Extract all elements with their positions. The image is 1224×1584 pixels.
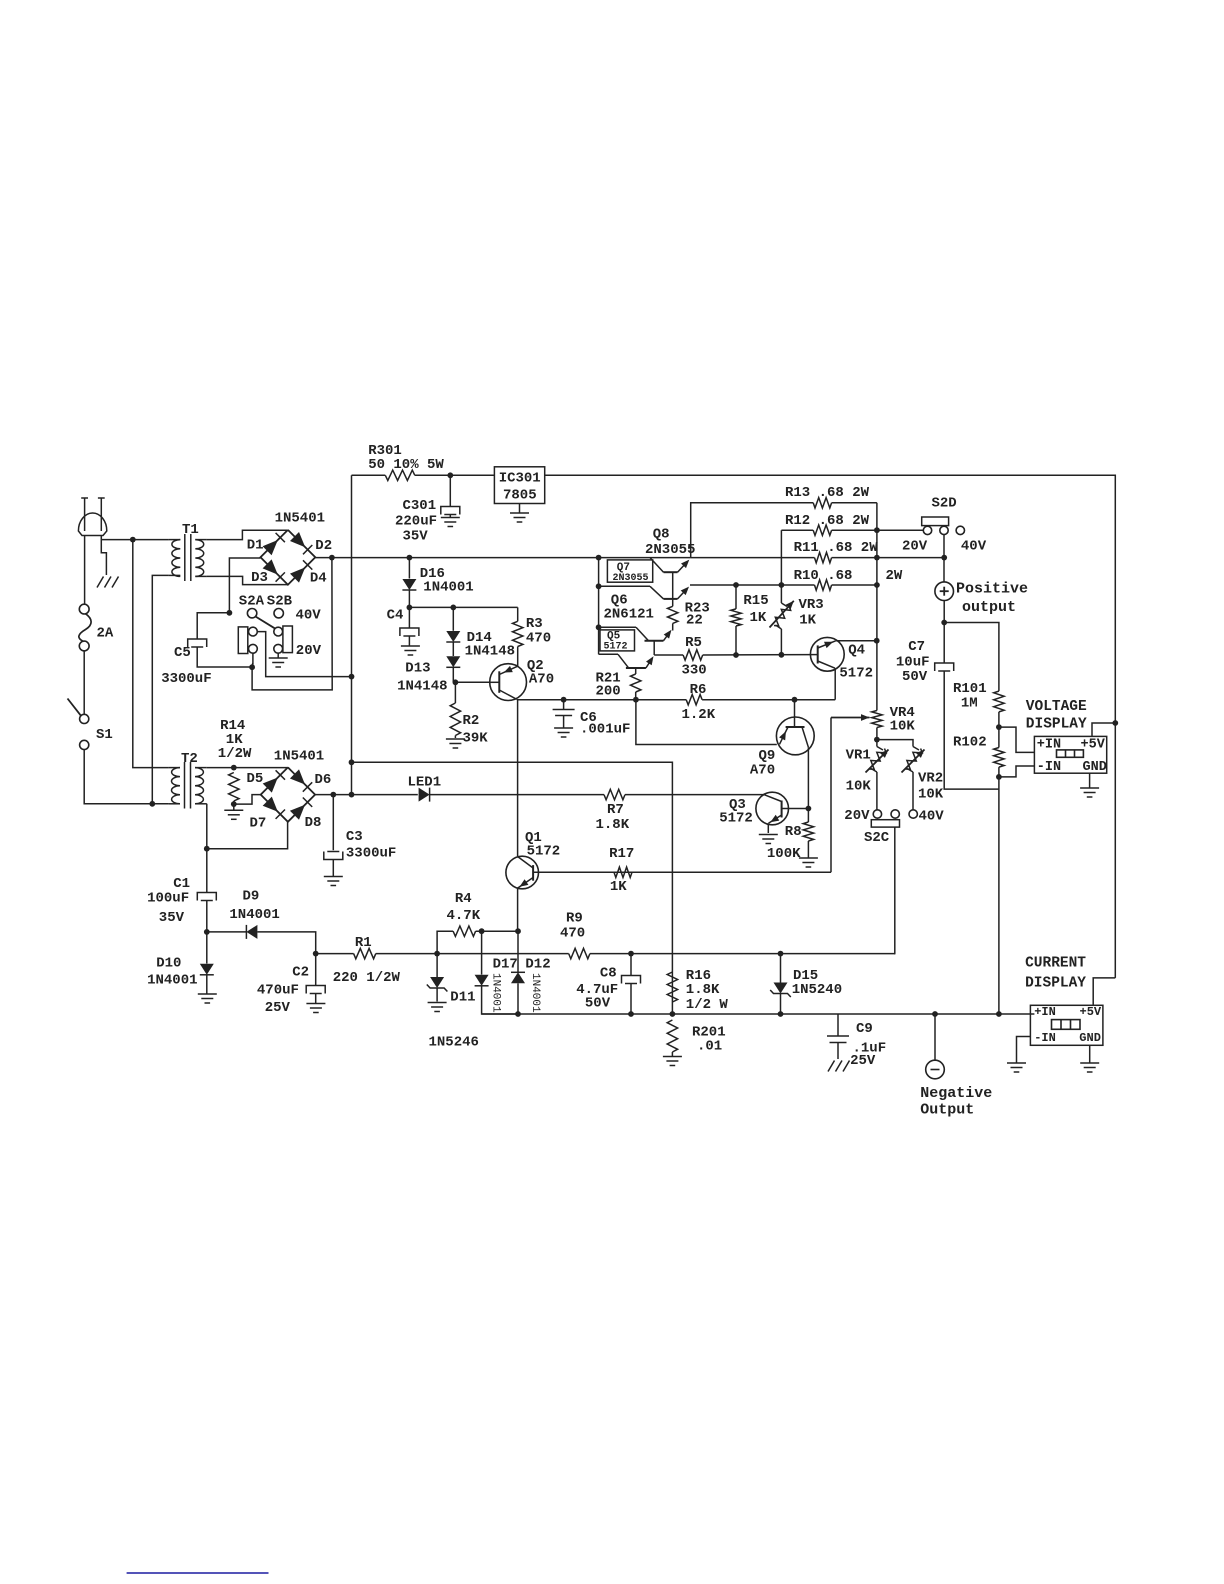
wire: [332, 860, 334, 877]
svg-text:1K: 1K: [799, 613, 816, 629]
svg-text:100uF: 100uF: [147, 891, 189, 907]
wire: [376, 953, 569, 955]
label D6: [315, 772, 332, 788]
svg-text:1.2K: 1.2K: [682, 707, 716, 723]
wire: [832, 584, 877, 586]
svg-text:1N4001: 1N4001: [147, 973, 197, 989]
resistor R4: [447, 891, 481, 936]
resistor R21: [596, 671, 641, 700]
wire: [834, 668, 836, 700]
diode bridge D1-D4: [261, 530, 316, 585]
node: [515, 928, 521, 934]
svg-text:S1: S1: [96, 727, 113, 743]
svg-text:39K: 39K: [463, 731, 489, 747]
wire: [517, 888, 519, 931]
wire: [315, 954, 317, 985]
wire: [476, 930, 518, 932]
wire: [482, 1013, 1035, 1015]
resistor R102: [953, 735, 1004, 768]
wire: [481, 931, 483, 974]
svg-text:1N4148: 1N4148: [465, 644, 515, 660]
svg-text:5172: 5172: [719, 811, 753, 827]
node: [349, 759, 355, 765]
wire: [545, 475, 1116, 978]
wire: [943, 601, 945, 663]
svg-text:Output: Output: [920, 1102, 974, 1119]
svg-text:D3: D3: [251, 570, 268, 586]
svg-text:S2A: S2A: [239, 594, 265, 610]
svg-text:S2C: S2C: [864, 830, 890, 846]
label D4: [310, 571, 327, 587]
svg-text:5172: 5172: [839, 666, 873, 682]
wire: [563, 716, 565, 728]
wire: [630, 954, 632, 975]
label D8: [305, 815, 322, 831]
node: [779, 652, 785, 658]
wire: [944, 623, 999, 692]
svg-text:S2B: S2B: [267, 594, 293, 610]
svg-text:2N3055: 2N3055: [645, 542, 695, 558]
ground: [198, 994, 217, 1003]
resistor R6: [682, 682, 716, 723]
wire: [409, 606, 517, 608]
wire: [436, 954, 438, 977]
ground: [1080, 1063, 1099, 1072]
svg-text:20V: 20V: [296, 643, 322, 659]
wire: [877, 740, 913, 747]
svg-text:D7: D7: [250, 816, 267, 832]
wire: [452, 667, 454, 682]
ground: [324, 877, 343, 886]
svg-text:R5: R5: [685, 635, 702, 651]
svg-text:470: 470: [526, 631, 551, 647]
wire: [351, 475, 353, 794]
wire: [207, 804, 288, 849]
svg-text:D10: D10: [156, 956, 181, 972]
wire: [832, 529, 924, 531]
node: [407, 605, 413, 611]
wire: [197, 647, 252, 667]
wire: [780, 954, 782, 983]
diode D13: [397, 656, 460, 694]
node: [453, 679, 459, 685]
wire: [316, 953, 354, 955]
wire: [1093, 978, 1115, 1005]
svg-text:1M: 1M: [961, 696, 978, 712]
wire: [517, 607, 519, 621]
capacitor C3: [324, 829, 397, 862]
positive output terminal: [935, 581, 1028, 617]
node: [874, 582, 880, 588]
wire: [234, 795, 261, 805]
wire: [133, 540, 169, 768]
svg-text:220uF: 220uF: [395, 514, 437, 530]
svg-text:Positive: Positive: [956, 581, 1028, 598]
svg-text:C3: C3: [346, 829, 363, 845]
wire: [590, 953, 895, 955]
node: [329, 555, 335, 561]
svg-text:D11: D11: [450, 990, 475, 1006]
ground: [799, 858, 818, 867]
svg-text:.001uF: .001uF: [580, 722, 630, 738]
resistor R13: [785, 485, 870, 508]
node: [778, 1011, 784, 1017]
svg-text:T1: T1: [182, 522, 199, 538]
diode D14: [446, 630, 515, 660]
svg-text:22: 22: [686, 613, 703, 629]
svg-text:R9: R9: [566, 911, 583, 927]
wire: [482, 986, 518, 1014]
svg-text:-IN: -IN: [1034, 1031, 1056, 1045]
svg-text:1K: 1K: [750, 610, 767, 626]
svg-text:3300uF: 3300uF: [161, 671, 211, 687]
resistor R11: [794, 540, 879, 563]
svg-text:2N3055: 2N3055: [613, 573, 649, 584]
node: [479, 928, 485, 934]
wire: [1092, 723, 1115, 736]
wire: [837, 1043, 839, 1060]
svg-text:LED1: LED1: [408, 775, 442, 791]
wire: [999, 766, 1035, 777]
node: [628, 1011, 634, 1017]
pot VR4: [872, 705, 916, 735]
transistor Q7: [599, 586, 689, 606]
diode D9: [229, 889, 279, 939]
svg-text:200: 200: [596, 684, 621, 700]
wire: [206, 932, 208, 964]
svg-text:1.8K: 1.8K: [596, 817, 630, 833]
svg-text:R17: R17: [609, 846, 634, 862]
wire: [998, 727, 1000, 747]
svg-text:1/2W: 1/2W: [218, 746, 252, 762]
wire: [517, 931, 519, 972]
svg-text:7805: 7805: [503, 488, 537, 504]
svg-text:1.8K: 1.8K: [686, 982, 720, 998]
svg-text:D5: D5: [247, 771, 264, 787]
wire: [894, 827, 897, 954]
node: [231, 765, 237, 771]
wire: [430, 794, 604, 796]
wire: [690, 584, 815, 586]
ground: [306, 1004, 325, 1013]
svg-text:1N4001: 1N4001: [423, 580, 473, 596]
resistor R14: [218, 718, 252, 804]
svg-text:A70: A70: [750, 763, 775, 779]
svg-text:40V: 40V: [961, 539, 987, 555]
negative output terminal: [920, 1060, 992, 1118]
wire: [517, 700, 519, 857]
svg-text:R8: R8: [785, 824, 802, 840]
svg-text:D9: D9: [243, 889, 260, 905]
svg-text:+IN: +IN: [1034, 1005, 1056, 1019]
label 1N5401: [275, 510, 325, 526]
svg-text:C9: C9: [856, 1021, 873, 1037]
resistor R15: [731, 593, 769, 626]
ground: [510, 513, 529, 522]
node: [149, 801, 155, 807]
svg-text:GND: GND: [1083, 760, 1107, 775]
capacitor C8: [576, 966, 640, 1012]
svg-text:1N4001: 1N4001: [529, 973, 541, 1013]
svg-text:VOLTAGE: VOLTAGE: [1026, 699, 1087, 715]
ground: [428, 1003, 447, 1012]
node: [670, 1011, 676, 1017]
svg-text:35V: 35V: [403, 529, 429, 545]
label Q6: [604, 593, 654, 623]
zener D11: [427, 977, 479, 1051]
resistor R23: [668, 601, 710, 629]
ground: [446, 739, 465, 748]
node: [633, 697, 639, 703]
svg-text:1K: 1K: [610, 879, 627, 895]
wire: [1017, 1037, 1031, 1063]
label 20V: [844, 808, 870, 824]
node: [792, 697, 798, 703]
svg-text:1N4001: 1N4001: [490, 973, 502, 1013]
fuse 2A: [79, 604, 114, 651]
wire: [563, 700, 565, 709]
svg-text:5172: 5172: [527, 844, 561, 860]
wire: [84, 750, 152, 804]
svg-text:35V: 35V: [159, 910, 185, 926]
switch S2D: [922, 496, 965, 535]
label 40V: [919, 809, 945, 825]
ground: [1080, 788, 1099, 797]
svg-text:1/2 W: 1/2 W: [686, 997, 729, 1013]
wire: [352, 474, 386, 476]
wire: [999, 727, 1035, 752]
link underline: [127, 1572, 269, 1574]
wire: [519, 504, 521, 513]
node: [1112, 720, 1118, 726]
svg-text:2W: 2W: [886, 568, 903, 584]
svg-text:1N5240: 1N5240: [792, 982, 842, 998]
wire: [837, 1014, 839, 1036]
svg-text:25V: 25V: [265, 1000, 291, 1016]
wire: [454, 736, 456, 739]
label Q7: [607, 560, 652, 584]
node: [231, 801, 237, 807]
resistor R101: [953, 681, 1004, 712]
wire: [1089, 773, 1091, 787]
svg-text:D2: D2: [315, 538, 332, 554]
transistor Q9: [750, 717, 814, 779]
resistor R8: [767, 822, 814, 862]
node: [313, 951, 319, 957]
svg-text:50V: 50V: [585, 996, 611, 1012]
node: [204, 846, 210, 852]
transistor Q3: [719, 792, 808, 826]
wire: [934, 1014, 936, 1060]
label 1N5401: [274, 749, 324, 765]
svg-text:VR1: VR1: [846, 748, 871, 764]
svg-text:D1: D1: [247, 538, 264, 554]
capacitor C7: [896, 639, 954, 685]
wire: [449, 515, 451, 518]
svg-text:40V: 40V: [919, 809, 945, 825]
resistor R301: [368, 443, 444, 481]
wire: [630, 984, 632, 1015]
wire: [437, 931, 453, 953]
label D3: [251, 570, 268, 586]
label 20V: [296, 643, 322, 659]
wire: [408, 636, 410, 646]
node: [249, 664, 255, 670]
svg-text:R1: R1: [355, 935, 372, 951]
label D5: [247, 771, 264, 787]
svg-text:R6: R6: [690, 682, 707, 698]
svg-text:50 10% 5W: 50 10% 5W: [368, 457, 444, 473]
svg-text:.01: .01: [697, 1039, 722, 1055]
node: [596, 555, 602, 561]
wire: [517, 983, 519, 1014]
wire: [408, 590, 410, 607]
svg-text:Q4: Q4: [848, 643, 865, 659]
pot VR1: [846, 740, 889, 795]
wire: [207, 530, 288, 539]
wire: [780, 629, 782, 655]
wire: [101, 536, 106, 576]
svg-text:470uF: 470uF: [257, 983, 299, 999]
svg-text:50V: 50V: [902, 669, 928, 685]
wire: [229, 558, 260, 613]
wire: [832, 502, 877, 504]
node: [779, 582, 785, 588]
switch S1: [68, 699, 113, 750]
resistor R7: [596, 789, 630, 833]
node: [996, 774, 1002, 780]
node: [733, 582, 739, 588]
svg-text:R15: R15: [743, 593, 768, 609]
wire: [84, 536, 86, 605]
wire: [452, 607, 454, 630]
svg-text:D6: D6: [315, 772, 332, 788]
diode D16: [402, 566, 473, 596]
capacitor C4: [400, 628, 419, 636]
node: [996, 1011, 1002, 1017]
wire: [517, 647, 519, 667]
svg-text:C301: C301: [403, 498, 437, 514]
diode bridge D5-D8: [261, 767, 315, 821]
label D7: [250, 816, 267, 832]
svg-text:VR3: VR3: [799, 597, 824, 613]
wire: [691, 503, 814, 558]
wire: [876, 772, 878, 810]
wire: [455, 681, 490, 683]
wire: [352, 762, 673, 1014]
wire: [876, 728, 878, 740]
svg-text:1N4148: 1N4148: [397, 679, 447, 695]
wire: [206, 901, 208, 932]
wire: [807, 841, 809, 858]
svg-text:output: output: [962, 599, 1016, 616]
svg-text:25V: 25V: [850, 1053, 876, 1069]
wire: [944, 671, 999, 789]
resistor R10: [794, 568, 903, 590]
svg-text:C2: C2: [292, 965, 309, 981]
node: [407, 555, 413, 561]
chassis ground: [828, 1061, 850, 1072]
wire: [206, 975, 208, 994]
wire: [315, 557, 690, 559]
node: [874, 555, 880, 561]
svg-text:R13 .68 2W: R13 .68 2W: [785, 485, 870, 501]
resistor R12: [785, 513, 870, 535]
wire: [767, 823, 769, 833]
node: [130, 537, 136, 543]
svg-text:1N5401: 1N5401: [275, 510, 325, 526]
node: [941, 555, 947, 561]
resistor R16: [667, 968, 728, 1013]
wire: [251, 653, 254, 667]
svg-text:220 1/2W: 220 1/2W: [333, 970, 401, 986]
capacitor C2: [257, 965, 325, 1017]
wire: [152, 575, 169, 803]
diode D17: [475, 957, 518, 1014]
resistor R2: [450, 703, 488, 747]
node: [778, 951, 784, 957]
wire: [449, 475, 451, 506]
transformer T1: [169, 522, 207, 581]
svg-text:20V: 20V: [902, 539, 928, 555]
svg-text:Negative: Negative: [920, 1085, 992, 1102]
svg-text:A70: A70: [529, 672, 554, 688]
wire: [517, 699, 686, 701]
node: [227, 610, 233, 616]
svg-text:R2: R2: [463, 713, 480, 729]
svg-text:5172: 5172: [604, 642, 628, 653]
wire: [912, 772, 914, 810]
label 20V: [902, 539, 928, 555]
ground: [759, 835, 778, 844]
node: [806, 806, 812, 812]
resistor R5: [682, 635, 707, 679]
label 40V: [296, 607, 322, 623]
transistor Q5: [599, 654, 654, 674]
node: [874, 638, 880, 644]
svg-text:D8: D8: [305, 815, 322, 831]
node: [447, 472, 453, 478]
svg-text:VR2: VR2: [918, 771, 943, 787]
pot VR2: [902, 747, 944, 803]
node: [561, 697, 567, 703]
wire: [671, 1052, 673, 1056]
wire: [415, 474, 495, 476]
svg-text:10K: 10K: [890, 719, 916, 735]
wire: [876, 503, 878, 711]
capacitor C5: [161, 639, 211, 687]
wire: [408, 558, 410, 579]
resistor R1: [333, 935, 401, 986]
svg-text:1N5401: 1N5401: [274, 749, 324, 765]
chassis ground: [97, 577, 119, 588]
svg-text:C5: C5: [174, 645, 191, 661]
svg-text:CURRENT: CURRENT: [1025, 956, 1086, 972]
wire: [257, 932, 315, 954]
transistor Q8: [645, 527, 695, 599]
svg-text:D13: D13: [405, 661, 430, 677]
current display: [1025, 956, 1103, 1046]
label D2: [315, 538, 332, 554]
svg-text:D4: D4: [310, 571, 327, 587]
ground: [441, 518, 460, 527]
label C4: [387, 608, 404, 624]
svg-text:-IN: -IN: [1037, 760, 1061, 775]
capacitor C6: [553, 710, 631, 738]
wire: [998, 712, 1000, 727]
wire: [332, 795, 334, 851]
ground: [1007, 1063, 1026, 1072]
